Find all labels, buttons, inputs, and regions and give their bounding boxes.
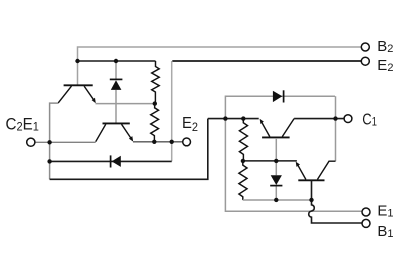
wire C2E1 to Q2 collector (gray) [35, 141, 96, 143]
terminal E2 mid [183, 138, 191, 146]
wire C1 node (black) [208, 118, 259, 120]
transistor Q2 [103, 122, 130, 124]
resistor R4 [239, 161, 247, 200]
diode D1 (vertical, pointing up) [110, 78, 123, 80]
wire E2 top (black) [172, 60, 361, 62]
wire left rail (black) B2 node [78, 60, 156, 62]
wire right rail + left edge + E1 wire (gray) [225, 96, 362, 211]
terminal C1 [344, 115, 352, 123]
terminal B1 [362, 219, 370, 227]
wire bottom rail to right block (black) [50, 119, 208, 180]
wire lower base rail (gray) [243, 199, 312, 201]
diode D4 (horizontal, pointing right) [273, 91, 282, 102]
terminal E2 top [361, 57, 369, 65]
wire Q3 base lead (gray) [275, 138, 277, 161]
wire B1 with hop over E1 wire (black) [309, 200, 362, 223]
resistor R1 [152, 61, 160, 104]
diode D3 (horizontal, pointing left) [110, 155, 112, 167]
transistor Q3 [262, 136, 290, 138]
resistor R3 [239, 119, 247, 161]
wire Q1 emitter node (gray) [96, 103, 155, 105]
wire Q3 base node (black) [243, 160, 297, 162]
terminal E1 [362, 208, 370, 216]
wire bottom diode rail (black) [50, 160, 172, 162]
diode D2 leads (gray) [275, 161, 277, 200]
terminal B2 [361, 43, 369, 51]
wire vertical E2 link (light gray) [171, 61, 173, 161]
wire Q1 collector elbow to C2E1 vertical (gray) [50, 103, 59, 179]
transistor Q4 [298, 179, 324, 181]
diode D2 (vertical, pointing down) [271, 175, 282, 185]
terminal C2E1 [27, 138, 35, 146]
wire Q2 emitter to E2 mid terminal [133, 141, 183, 143]
resistor R2 [151, 104, 159, 142]
transistor Q1 [64, 84, 93, 86]
diode D1 leads (gray) [115, 61, 117, 123]
node dots left block [75, 59, 79, 63]
node dots right block [223, 116, 227, 120]
wire right edge vertical (gray) [335, 96, 337, 161]
wire B2 top (gray) with vertical down to Q1 base bar [78, 47, 362, 85]
wire Q4 base lead (black) [311, 180, 313, 200]
